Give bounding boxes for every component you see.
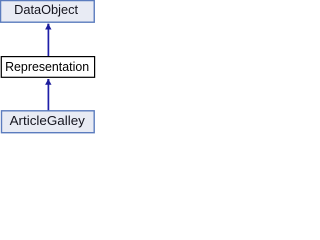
svg-text:Representation: Representation <box>5 59 89 74</box>
wire: inheritance edge ArticleGalley to Representation <box>47 84 49 111</box>
svg-text:DataObject: DataObject <box>14 2 78 17</box>
arrowhead pointing up at DataObject <box>45 24 51 30</box>
class box DataObject <box>1 1 95 23</box>
class box Representation (current class) <box>1 57 94 78</box>
class box ArticleGalley <box>2 111 95 133</box>
svg-text:ArticleGalley: ArticleGalley <box>10 113 86 128</box>
wire: inheritance edge Representation to DataObject <box>47 29 49 57</box>
arrowhead pointing up at Representation <box>45 79 51 85</box>
